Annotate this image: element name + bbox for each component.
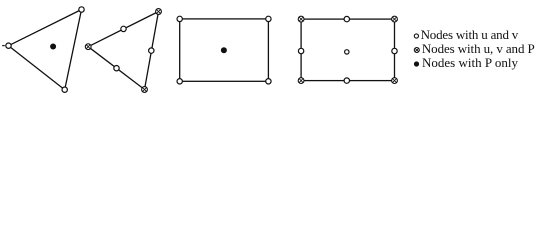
node T2 left corner (u,v,P) [85, 44, 91, 50]
node Q1 bottom-right (u,v) [266, 79, 271, 84]
triangle element T1 (linear triangle) [9, 10, 82, 90]
svg-text:Nodes with P only: Nodes with P only [422, 55, 518, 70]
node Q1 bottom-left (u,v) [177, 79, 182, 84]
legend label: Nodes with u and v [421, 27, 519, 42]
node Q1 top-right (u,v) [266, 16, 271, 21]
node Q2 midside right (u,v) [392, 48, 397, 53]
node T1 left (u,v) [6, 43, 11, 48]
legend label: Nodes with P only [422, 55, 518, 70]
left tick mark [2, 45, 4, 47]
node Q2 midside bottom (u,v) [344, 78, 349, 83]
triangle element T2 (quadratic triangle) [88, 12, 158, 90]
svg-text:Nodes with u, v and P: Nodes with u, v and P [422, 41, 535, 56]
node Q2 top-right corner (u,v,P) [392, 16, 398, 22]
node T2 midside lower (u,v) [114, 66, 119, 71]
quad element Q2 (quadratic quad) [301, 19, 394, 81]
svg-text:Nodes with u and v: Nodes with u and v [421, 27, 519, 42]
node Q2 bottom-left corner (u,v,P) [298, 78, 304, 84]
legend label: Nodes with u, v and P [422, 41, 535, 56]
node Q1 top-left (u,v) [177, 16, 182, 21]
node Q2 top-left corner (u,v,P) [298, 16, 304, 22]
node T2 top corner (u,v,P) [156, 9, 162, 15]
node T2 midside right (u,v) [149, 48, 154, 53]
quad element Q1 (bilinear quad) [180, 19, 269, 81]
legend marker filled circle [414, 61, 419, 66]
node T2 midside upper (u,v) [121, 26, 126, 31]
node T1 bottom (u,v) [62, 87, 67, 92]
node T1 top (u,v) [79, 7, 84, 12]
node Q2 midside top (u,v) [344, 16, 349, 21]
node T2 bottom corner (u,v,P) [142, 87, 148, 93]
node T1 center (P only) [50, 44, 56, 50]
node Q1 center (P only) [221, 47, 227, 53]
node Q2 midside left (u,v) [298, 48, 303, 53]
legend marker crossed circle [414, 48, 419, 53]
node Q2 center (u,v) [345, 50, 349, 54]
legend marker open circle [414, 34, 418, 38]
node Q2 bottom-right corner (u,v,P) [392, 78, 398, 84]
